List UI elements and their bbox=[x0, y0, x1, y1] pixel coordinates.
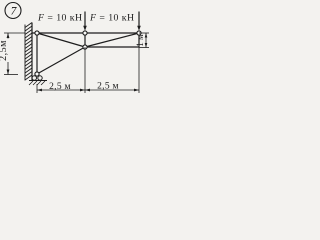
right dimension extension tick top bbox=[139, 32, 149, 34]
ground line under roller support bbox=[29, 80, 47, 82]
member AE diagonal bbox=[37, 33, 85, 47]
roller support circles bbox=[32, 76, 42, 80]
left dimension extension tick bottom bbox=[4, 74, 18, 76]
svg-text:2,5 м: 2,5 м bbox=[49, 82, 71, 92]
force F2 arrow bbox=[137, 12, 141, 31]
right dimension extension tick bottom bbox=[139, 47, 149, 49]
svg-text:2,5м: 2,5м bbox=[0, 40, 9, 61]
bottom dimension line with arrows bbox=[37, 89, 139, 92]
svg-text:1 м: 1 м bbox=[135, 34, 145, 47]
member AD wall vertical bbox=[36, 33, 38, 74]
svg-text:F = 10 кН: F = 10 кН bbox=[89, 13, 135, 24]
node D bbox=[35, 72, 39, 76]
left dimension label 2,5 м bbox=[0, 39, 10, 63]
left dimension line with arrows bbox=[7, 33, 10, 75]
background bbox=[0, 0, 150, 100]
bottom extension line at support bbox=[36, 84, 38, 93]
node C bbox=[137, 31, 141, 35]
member CF vertical bbox=[138, 33, 140, 47]
wall face edge bbox=[31, 23, 33, 81]
wall hatching bbox=[25, 23, 32, 81]
svg-text:2,5 м: 2,5 м bbox=[97, 82, 119, 92]
wall back edge bbox=[24, 25, 26, 81]
force F1 arrow bbox=[83, 12, 87, 31]
node E bbox=[83, 45, 87, 49]
bottom extension line at node F bbox=[138, 47, 140, 93]
member BE vertical bbox=[84, 33, 86, 47]
problem number badge 7 bbox=[5, 3, 21, 19]
left dimension extension tick top bbox=[4, 32, 25, 34]
node A bbox=[35, 31, 39, 35]
member EC diagonal bbox=[85, 33, 139, 47]
member EF lower chord bbox=[85, 46, 139, 48]
member AB top chord bbox=[32, 32, 139, 34]
right dimension line with arrows bbox=[145, 33, 148, 48]
svg-text:F = 10 кН: F = 10 кН bbox=[37, 13, 83, 24]
node B bbox=[83, 31, 87, 35]
member DE diagonal bbox=[37, 47, 85, 74]
bottom extension line at node E bbox=[84, 47, 86, 93]
ground hatching bbox=[29, 81, 45, 85]
